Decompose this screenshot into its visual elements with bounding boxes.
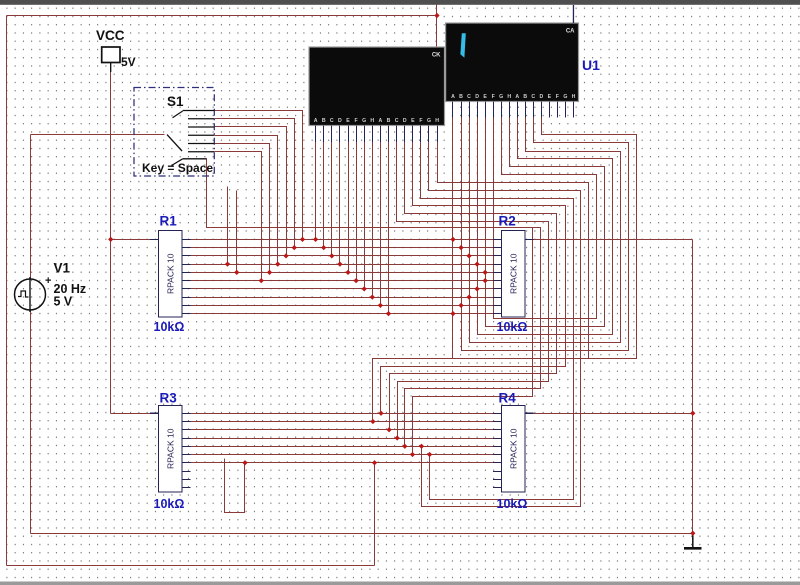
- wire CK pin 5 down to R1 line 5: [348, 141, 350, 273]
- svg-text:B: B: [387, 118, 391, 124]
- svg-text:D: D: [338, 118, 342, 124]
- junction at 227.5,264.1: [225, 262, 230, 267]
- wire CA pin 8 paired to CA pin 5: [486, 118, 605, 327]
- junction at 692.8,533.2: [690, 531, 695, 536]
- svg-text:H: H: [572, 94, 576, 100]
- svg-text:CA: CA: [566, 29, 575, 35]
- wire R1 pin 5 to R2 pin 5: [191, 272, 494, 274]
- resistor pack R1: [150, 214, 191, 335]
- wire R3 pin 7 to R4 pin 7: [191, 462, 494, 464]
- svg-text:F: F: [419, 118, 422, 124]
- resistor pack R4: [493, 391, 534, 512]
- wire S1 contact 4 to R1 pin 4: [215, 136, 278, 265]
- junction at 477.1,288.9: [474, 286, 479, 291]
- 16-segment display CA: [446, 23, 579, 118]
- svg-text:5V: 5V: [121, 55, 136, 69]
- svg-text:10kΩ: 10kΩ: [154, 497, 185, 511]
- svg-text:RPACK 10: RPACK 10: [165, 428, 175, 469]
- svg-text:C: C: [531, 94, 535, 100]
- wire R1 pin 7 to R2 pin 7: [191, 288, 494, 290]
- svg-text:H: H: [507, 94, 511, 100]
- wire CK pin 13 nested route to R3 line 1: [381, 141, 566, 414]
- wire CK pin 8 down to R1 line 8: [372, 141, 374, 298]
- svg-text:A: A: [314, 118, 318, 124]
- junction at 372.3,297.1: [370, 295, 375, 300]
- top window bar: [0, 0, 800, 5]
- junction at 372.9,421.6: [370, 419, 375, 424]
- svg-text:A: A: [451, 94, 455, 100]
- resistor pack R2: [493, 214, 534, 335]
- wire CA pin 10 paired to CA pin 3: [470, 118, 621, 343]
- svg-text:B: B: [322, 118, 326, 124]
- junction at 453,239.4: [450, 237, 455, 242]
- wire R1 pin 1 to R2 pin 1: [191, 239, 494, 241]
- junction at 381,413.3: [378, 411, 383, 416]
- resistor pack R3: [150, 391, 191, 512]
- wire CK pin 10 down to R1 line 10: [388, 141, 390, 314]
- wire S1 contact 3 to R1 pin 3: [215, 127, 287, 256]
- wire S1 contact 1 to R1 pin 1: [215, 111, 303, 240]
- svg-text:C: C: [330, 118, 334, 124]
- wire S1 contact 2 to R1 pin 2: [215, 119, 295, 248]
- junction at 453,313.6: [450, 311, 455, 316]
- svg-text:D: D: [403, 118, 407, 124]
- svg-text:G: G: [427, 118, 431, 124]
- svg-text:H: H: [435, 118, 439, 124]
- svg-text:G: G: [362, 118, 366, 124]
- wire R2 common to ground: [534, 239, 693, 241]
- wire CK pin 14 long U route: [421, 141, 574, 500]
- svg-text:R4: R4: [499, 391, 517, 406]
- wire S1 pole bottom nested route: [207, 159, 541, 447]
- wire CK pin 1 down to R1 line 1: [315, 141, 317, 240]
- junction at 374.5,462.8: [372, 460, 377, 465]
- wire CK pin 16 nested route to R3 line 2: [373, 141, 589, 422]
- junction at 269.5,272.4: [267, 270, 272, 275]
- 16-segment display CK: [309, 47, 445, 142]
- wire CK pin 11 nested route to R3 line 4: [397, 141, 549, 439]
- junction at 380.4,305.4: [378, 303, 383, 308]
- wire CK pin 9 down to R1 line 9: [380, 141, 382, 306]
- switch S1: [134, 88, 214, 177]
- junction at 236.8,272.4: [234, 270, 239, 275]
- svg-text:D: D: [475, 94, 479, 100]
- wire S1 contact 5 to R1 pin 5: [215, 144, 270, 273]
- wire V1 bottom vertical: [30, 311, 32, 534]
- junction at 485.1,280.6: [483, 278, 488, 283]
- wire R4 common to ground: [534, 413, 693, 415]
- svg-text:E: E: [411, 118, 415, 124]
- svg-text:C: C: [395, 118, 399, 124]
- svg-text:A: A: [515, 94, 519, 100]
- wire CK pin 2 down to R1 line 2: [323, 141, 325, 248]
- svg-text:F: F: [355, 118, 358, 124]
- svg-text:G: G: [563, 94, 567, 100]
- wire R1 pin 2 to R2 pin 2: [191, 247, 494, 249]
- junction at 331.8,255.9: [329, 253, 334, 258]
- junction at 348,272.4: [345, 270, 350, 275]
- svg-text:10kΩ: 10kΩ: [154, 320, 185, 334]
- svg-text:R2: R2: [499, 214, 516, 229]
- wire CK pin 12 nested route to R3 line 3: [390, 141, 557, 430]
- wire CK pin 15 long U route: [422, 141, 581, 507]
- svg-text:E: E: [483, 94, 487, 100]
- wire V1 top vertical: [30, 135, 32, 279]
- svg-text:RPACK 10: RPACK 10: [508, 253, 518, 294]
- junction at 110.7,239.4: [108, 237, 113, 242]
- svg-text:A: A: [379, 118, 383, 124]
- wire CA pin 9 paired to CA pin 4: [478, 118, 613, 335]
- junction at 477.1,264.1: [474, 262, 479, 267]
- svg-text:10kΩ: 10kΩ: [497, 497, 528, 511]
- svg-text:B: B: [523, 94, 527, 100]
- wire ground right vertical: [692, 240, 694, 534]
- junction at 412.5,454.6: [410, 452, 415, 457]
- junction at 277.8,264.1: [275, 262, 280, 267]
- wire R1 pin 4 to R2 pin 4: [191, 264, 494, 266]
- svg-text:VCC: VCC: [96, 28, 125, 43]
- junction at 692.8,413.3: [690, 411, 695, 416]
- svg-text:G: G: [499, 94, 503, 100]
- wire R1 pin 3 to R2 pin 3: [191, 255, 494, 257]
- junction at 261.2,280.6: [259, 278, 264, 283]
- svg-text:H: H: [370, 118, 374, 124]
- junction at 323.7,247.7: [321, 245, 326, 250]
- wire CK display top pin: [436, 5, 438, 47]
- wire R1 pin 9 to R2 pin 9: [191, 305, 494, 307]
- svg-text:Key = Space: Key = Space: [142, 161, 213, 175]
- junction at 339.9,264.1: [337, 262, 342, 267]
- CA display top pin: [572, 5, 574, 23]
- svg-text:CK: CK: [432, 53, 441, 59]
- junction at 397.2,438.1: [395, 435, 400, 440]
- junction at 421.5,446.3: [419, 444, 424, 449]
- wire ground rail horizontal: [31, 533, 693, 535]
- svg-text:10kΩ: 10kΩ: [497, 320, 528, 334]
- wire R1 pin 10 to R2 pin 10: [191, 313, 494, 315]
- wire CK pin 7 down to R1 line 7: [364, 141, 366, 289]
- wire loop right vertical: [374, 463, 376, 566]
- wire VCC to R1 pin: [111, 239, 151, 241]
- junction at 461,305.4: [458, 303, 463, 308]
- bottom window bar: [0, 582, 800, 585]
- wire CA pin 11 paired to CA pin 2: [462, 118, 629, 351]
- junction at 469.1,297.1: [466, 295, 471, 300]
- junction at 364.2,288.9: [362, 286, 367, 291]
- wire S1 pole B down: [236, 191, 238, 273]
- ground symbol: [684, 533, 702, 548]
- svg-text:U1: U1: [582, 57, 600, 73]
- source V1: [15, 261, 87, 313]
- svg-text:RPACK 10: RPACK 10: [508, 428, 518, 469]
- wire CA pin 7 paired to CA pin 6: [494, 118, 597, 319]
- junction at 315.6,239.4: [313, 237, 318, 242]
- wire loop top horizontal: [7, 15, 437, 17]
- svg-text:5 V: 5 V: [54, 295, 73, 309]
- junction at 461,247.7: [458, 245, 463, 250]
- wire R3 pin 1 to R4 pin 1: [191, 413, 494, 415]
- svg-text:RPACK 10: RPACK 10: [165, 253, 175, 294]
- junction at 389.1,429.8: [386, 427, 391, 432]
- wire loop bottom horizontal: [7, 565, 375, 567]
- svg-text:S1: S1: [167, 94, 184, 109]
- wire R3 pin 6 to R4 pin 6: [191, 454, 494, 456]
- junction at 286,255.9: [283, 253, 288, 258]
- junction at 245,462.8: [242, 460, 247, 465]
- wire loop left vertical: [6, 16, 8, 566]
- svg-text:C: C: [467, 94, 471, 100]
- wire branch to R3 line 6: [413, 228, 533, 455]
- svg-text:V1: V1: [54, 261, 71, 276]
- wire S1 pole A down: [227, 187, 229, 265]
- junction at 437,15.5: [434, 13, 439, 18]
- junction at 294.2,247.7: [292, 245, 297, 250]
- svg-text:F: F: [556, 94, 559, 100]
- junction at 485.1,272.4: [483, 270, 488, 275]
- svg-text:D: D: [539, 94, 543, 100]
- junction at 302.5,239.4: [300, 237, 305, 242]
- wire CK pin 6 down to R1 line 6: [356, 141, 358, 281]
- junction at 356.1,280.6: [353, 278, 358, 283]
- junction at 388.5,313.6: [386, 311, 391, 316]
- svg-text:R3: R3: [160, 391, 178, 406]
- svg-text:B: B: [459, 94, 463, 100]
- wire VCC to R3 pin: [111, 413, 151, 415]
- wire CA pin 12 paired to CA pin 1: [453, 118, 637, 359]
- wire CK pin 3 down to R1 line 3: [331, 141, 333, 256]
- junction at 469.1,255.9: [466, 253, 471, 258]
- junction at 404.8,446.3: [402, 444, 407, 449]
- wire VCC vertical: [110, 63, 112, 414]
- wire bottom U near R3: [225, 459, 245, 513]
- wire R3 pin 5 to R4 pin 5: [191, 446, 494, 448]
- wire R3 pin 4 to R4 pin 4: [191, 438, 494, 440]
- wire CK pin 4 down to R1 line 4: [339, 141, 341, 265]
- junction at 429.6,454.6: [427, 452, 432, 457]
- svg-text:F: F: [492, 94, 495, 100]
- svg-text:E: E: [548, 94, 552, 100]
- wire R1 pin 6 to R2 pin 6: [191, 280, 494, 282]
- power flag VCC: [96, 28, 136, 72]
- svg-text:+: +: [45, 275, 51, 287]
- wire V1 top horizontal to S1: [31, 134, 165, 136]
- wire S1 contact 6 to R1 pin 6: [215, 152, 262, 281]
- lit cyan segment: [460, 33, 465, 58]
- svg-text:E: E: [346, 118, 350, 124]
- svg-text:R1: R1: [160, 214, 178, 229]
- wire R3 pin 3 to R4 pin 3: [191, 429, 494, 431]
- wire R1 pin 8 to R2 pin 8: [191, 297, 494, 299]
- wire R3 pin 2 to R4 pin 2: [191, 421, 494, 423]
